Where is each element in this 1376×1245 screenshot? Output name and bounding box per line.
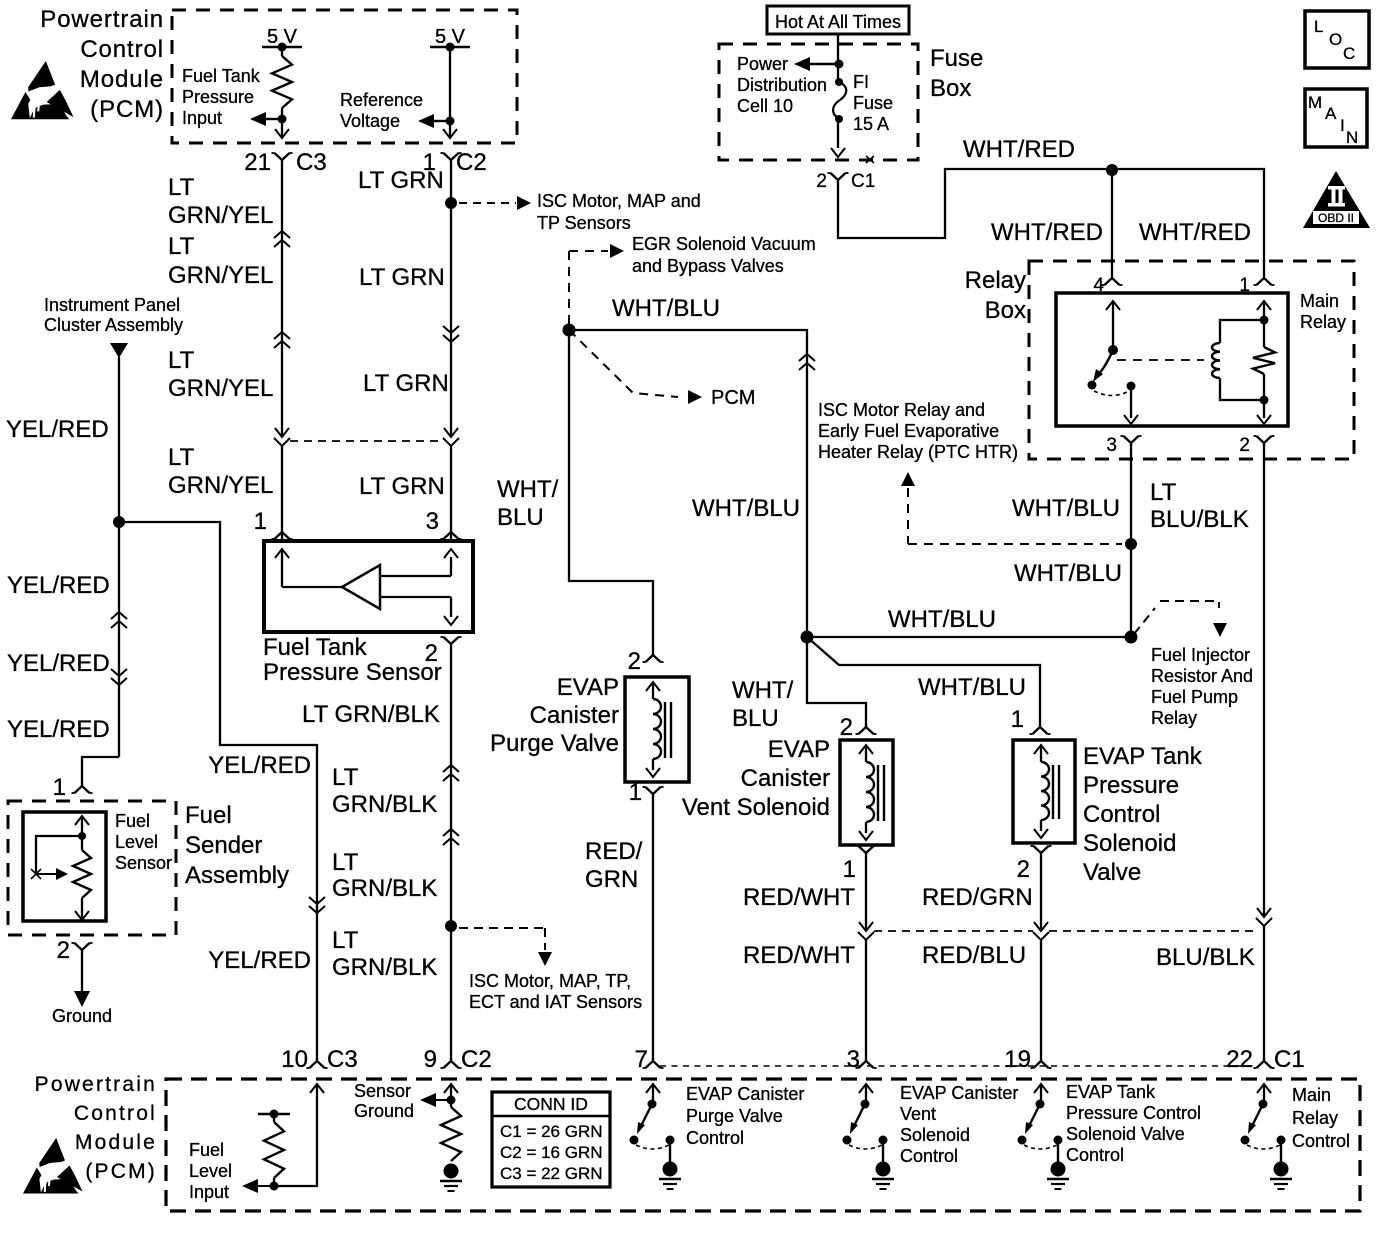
svg-text:Vent: Vent (900, 1104, 936, 1124)
svg-text:Early Fuel Evaporative: Early Fuel Evaporative (818, 421, 999, 441)
svg-text:C3: C3 (296, 149, 327, 176)
svg-text:1: 1 (1011, 706, 1024, 733)
svg-text:Control: Control (1083, 801, 1160, 828)
svg-text:GRN/YEL: GRN/YEL (168, 472, 273, 499)
svg-text:2: 2 (816, 171, 827, 192)
svg-text:Solenoid Valve: Solenoid Valve (1066, 1124, 1185, 1144)
svg-text:WHT/BLU: WHT/BLU (1014, 560, 1122, 587)
svg-text:Resistor And: Resistor And (1151, 666, 1253, 686)
svg-text:Fuel: Fuel (185, 802, 232, 829)
svg-text:YEL/RED: YEL/RED (208, 752, 311, 779)
svg-text:Fuel Tank: Fuel Tank (182, 66, 261, 86)
svg-text:L: L (1314, 17, 1323, 36)
svg-text:GRN/BLK: GRN/BLK (332, 791, 437, 818)
svg-text:Box: Box (985, 297, 1026, 324)
svg-text:LT GRN: LT GRN (359, 264, 445, 291)
svg-text:WHT/BLU: WHT/BLU (888, 606, 996, 633)
svg-text:BLU: BLU (732, 705, 779, 732)
svg-text:Fuel: Fuel (189, 1140, 224, 1160)
svg-text:EVAP Canister: EVAP Canister (900, 1083, 1018, 1103)
svg-text:LT: LT (1150, 479, 1177, 506)
svg-text:Canister: Canister (530, 702, 619, 729)
svg-text:N: N (1346, 128, 1358, 147)
svg-text:LT: LT (332, 764, 359, 791)
svg-text:Pressure Sensor: Pressure Sensor (263, 659, 442, 686)
svg-text:ISC Motor, MAP and: ISC Motor, MAP and (537, 191, 701, 211)
svg-text:LT: LT (168, 174, 195, 201)
svg-text:GRN/YEL: GRN/YEL (168, 262, 273, 289)
svg-text:(PCM): (PCM) (85, 1160, 157, 1183)
svg-text:Relay: Relay (1151, 708, 1197, 728)
svg-text:A: A (1325, 104, 1337, 123)
svg-text:WHT/BLU: WHT/BLU (918, 674, 1026, 701)
svg-text:LT GRN: LT GRN (363, 370, 449, 397)
svg-text:GRN/BLK: GRN/BLK (332, 954, 437, 981)
svg-text:Sensor: Sensor (115, 853, 172, 873)
svg-text:RED/BLU: RED/BLU (922, 942, 1026, 969)
svg-text:GRN/YEL: GRN/YEL (168, 202, 273, 229)
svg-text:RED/WHT: RED/WHT (743, 884, 855, 911)
svg-text:1: 1 (843, 856, 856, 883)
svg-text:LT GRN: LT GRN (358, 167, 444, 194)
svg-text:Module: Module (75, 1131, 157, 1154)
svg-text:Powertrain: Powertrain (35, 1073, 157, 1096)
svg-text:2: 2 (628, 648, 641, 675)
svg-text:C1 = 26 GRN: C1 = 26 GRN (500, 1122, 603, 1141)
svg-text:YEL/RED: YEL/RED (7, 650, 110, 677)
svg-text:Relay: Relay (1300, 312, 1346, 332)
svg-text:EVAP Tank: EVAP Tank (1083, 743, 1203, 770)
svg-text:Vent Solenoid: Vent Solenoid (682, 794, 830, 821)
svg-text:9: 9 (424, 1046, 437, 1073)
svg-text:Sender: Sender (185, 832, 262, 859)
svg-text:Sensor: Sensor (354, 1081, 411, 1101)
svg-text:1: 1 (254, 508, 267, 535)
svg-text:Main: Main (1292, 1085, 1331, 1105)
svg-text:Instrument Panel: Instrument Panel (44, 295, 180, 315)
svg-text:ECT and IAT Sensors: ECT and IAT Sensors (469, 992, 642, 1012)
svg-text:EVAP Canister: EVAP Canister (686, 1084, 804, 1104)
svg-text:Valve: Valve (1083, 859, 1141, 886)
svg-text:2: 2 (1239, 435, 1250, 456)
svg-text:C1: C1 (851, 171, 875, 192)
svg-text:Distribution: Distribution (737, 75, 827, 95)
svg-text:BLU/BLK: BLU/BLK (1156, 944, 1255, 971)
svg-text:GRN/BLK: GRN/BLK (332, 875, 437, 902)
svg-text:2: 2 (57, 937, 70, 964)
svg-text:YEL/RED: YEL/RED (6, 416, 109, 443)
svg-text:Ground: Ground (52, 1006, 112, 1026)
svg-text:21: 21 (244, 149, 271, 176)
svg-text:WHT/: WHT/ (497, 476, 559, 503)
svg-text:RED/WHT: RED/WHT (743, 942, 855, 969)
svg-text:Canister: Canister (741, 765, 830, 792)
svg-text:Assembly: Assembly (185, 862, 289, 889)
svg-text:YEL/RED: YEL/RED (208, 947, 311, 974)
svg-text:Cluster Assembly: Cluster Assembly (44, 315, 183, 335)
svg-text:C2 = 16 GRN: C2 = 16 GRN (500, 1143, 603, 1162)
svg-text:CONN ID: CONN ID (514, 1094, 588, 1114)
svg-text:C3: C3 (327, 1046, 358, 1073)
svg-text:EVAP: EVAP (768, 736, 830, 763)
svg-text:C3 = 22 GRN: C3 = 22 GRN (500, 1164, 603, 1183)
svg-text:and Bypass Valves: and Bypass Valves (632, 256, 784, 276)
svg-text:Voltage: Voltage (340, 111, 400, 131)
svg-text:2: 2 (1017, 856, 1030, 883)
svg-text:O: O (1329, 30, 1342, 49)
svg-text:Power: Power (737, 54, 788, 74)
svg-text:3: 3 (847, 1046, 860, 1073)
svg-text:Ground: Ground (354, 1101, 414, 1121)
svg-text:WHT/BLU: WHT/BLU (612, 295, 720, 322)
svg-text:GRN: GRN (585, 866, 638, 893)
svg-text:Hot At All Times: Hot At All Times (775, 12, 901, 32)
svg-text:Pressure Control: Pressure Control (1066, 1103, 1201, 1123)
svg-text:LT GRN/BLK: LT GRN/BLK (302, 701, 440, 728)
svg-text:Relay: Relay (965, 267, 1026, 294)
svg-text:Purge Valve: Purge Valve (490, 730, 619, 757)
svg-text:Heater Relay (PTC HTR): Heater Relay (PTC HTR) (818, 442, 1018, 462)
svg-text:Module: Module (80, 66, 164, 93)
svg-text:19: 19 (1004, 1046, 1031, 1073)
svg-text:3: 3 (1106, 435, 1117, 456)
svg-text:FI: FI (853, 72, 869, 92)
svg-text:Control: Control (80, 36, 164, 63)
svg-text:LT: LT (332, 849, 359, 876)
svg-text:LT: LT (168, 233, 195, 260)
svg-text:ISC Motor, MAP, TP,: ISC Motor, MAP, TP, (469, 971, 631, 991)
svg-text:Fuse: Fuse (853, 93, 893, 113)
svg-text:YEL/RED: YEL/RED (7, 572, 110, 599)
svg-text:LT: LT (168, 347, 195, 374)
svg-text:C: C (1343, 44, 1355, 63)
svg-text:15 A: 15 A (853, 114, 889, 134)
svg-text:Control: Control (74, 1102, 157, 1125)
svg-text:Fuel Tank: Fuel Tank (263, 634, 368, 661)
svg-text:Cell 10: Cell 10 (737, 96, 793, 116)
svg-text:Fuel: Fuel (115, 811, 150, 831)
svg-text:RED/: RED/ (585, 838, 643, 865)
svg-text:Input: Input (189, 1182, 229, 1202)
svg-text:1: 1 (629, 779, 642, 806)
svg-text:Box: Box (930, 75, 971, 102)
svg-text:Control: Control (686, 1128, 744, 1148)
svg-text:2: 2 (840, 714, 853, 741)
svg-text:Level: Level (115, 832, 158, 852)
svg-text:LT: LT (168, 444, 195, 471)
svg-text:C1: C1 (1274, 1046, 1305, 1073)
svg-text:Pressure: Pressure (1083, 772, 1179, 799)
svg-text:1: 1 (53, 774, 66, 801)
svg-text:EGR Solenoid Vacuum: EGR Solenoid Vacuum (632, 234, 816, 254)
svg-text:OBD II: OBD II (1318, 211, 1354, 225)
svg-text:LT: LT (332, 927, 359, 954)
svg-text:Level: Level (189, 1161, 232, 1181)
svg-text:7: 7 (635, 1046, 648, 1073)
svg-text:Pressure: Pressure (182, 87, 254, 107)
svg-text:WHT/RED: WHT/RED (963, 136, 1075, 163)
svg-text:2: 2 (425, 640, 438, 667)
svg-text:M: M (1308, 93, 1322, 112)
svg-text:EVAP Tank: EVAP Tank (1066, 1082, 1156, 1102)
svg-text:22: 22 (1226, 1046, 1253, 1073)
svg-text:Fuel Injector: Fuel Injector (1151, 645, 1250, 665)
svg-text:WHT/RED: WHT/RED (1139, 219, 1251, 246)
svg-text:Powertrain: Powertrain (40, 6, 164, 33)
svg-text:YEL/RED: YEL/RED (7, 716, 110, 743)
svg-text:ISC Motor Relay and: ISC Motor Relay and (818, 400, 985, 420)
svg-text:EVAP: EVAP (557, 674, 619, 701)
svg-text:TP Sensors: TP Sensors (537, 213, 631, 233)
svg-text:BLU: BLU (497, 504, 544, 531)
svg-text:WHT/RED: WHT/RED (991, 219, 1103, 246)
svg-text:PCM: PCM (711, 387, 755, 409)
svg-text:Main: Main (1300, 291, 1339, 311)
svg-text:WHT/BLU: WHT/BLU (692, 495, 800, 522)
svg-text:Fuel Pump: Fuel Pump (1151, 687, 1238, 707)
svg-text:WHT/BLU: WHT/BLU (1012, 495, 1120, 522)
svg-text:LT GRN: LT GRN (359, 473, 445, 500)
svg-text:Control: Control (1066, 1145, 1124, 1165)
svg-text:Solenoid: Solenoid (1083, 830, 1176, 857)
svg-text:Purge Valve: Purge Valve (686, 1106, 783, 1126)
svg-text:(PCM): (PCM) (90, 96, 164, 123)
svg-text:RED/GRN: RED/GRN (922, 884, 1033, 911)
svg-text:WHT/: WHT/ (732, 677, 794, 704)
svg-text:BLU/BLK: BLU/BLK (1150, 506, 1249, 533)
svg-text:3: 3 (426, 508, 439, 535)
svg-text:C2: C2 (461, 1046, 492, 1073)
svg-text:Input: Input (182, 108, 222, 128)
svg-text:Control: Control (900, 1146, 958, 1166)
svg-text:Relay: Relay (1292, 1108, 1338, 1128)
svg-text:GRN/YEL: GRN/YEL (168, 375, 273, 402)
svg-text:Reference: Reference (340, 90, 423, 110)
svg-text:I: I (1340, 116, 1345, 135)
svg-text:Fuse: Fuse (930, 45, 983, 72)
svg-text:Control: Control (1292, 1131, 1350, 1151)
svg-text:10: 10 (281, 1046, 308, 1073)
svg-text:Solenoid: Solenoid (900, 1125, 970, 1145)
